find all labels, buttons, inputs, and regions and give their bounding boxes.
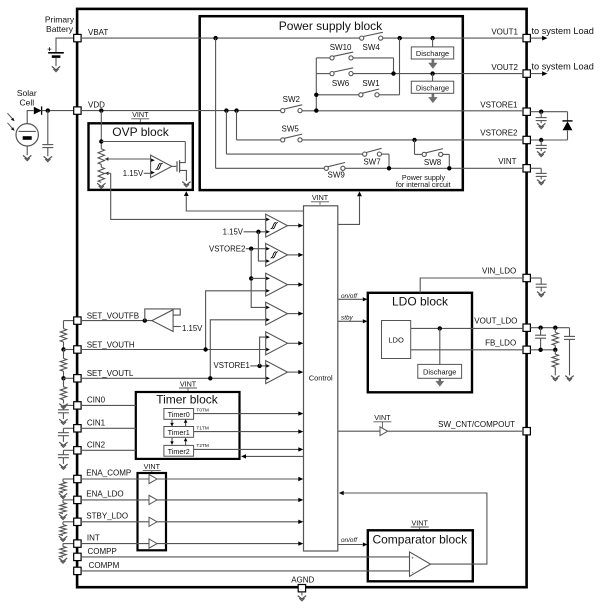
wire control to LDO onoff	[338, 297, 368, 301]
svg-text:CIN0: CIN0	[87, 396, 106, 405]
resistor pulldown at ENA_COMP	[59, 479, 74, 499]
node rail-discharge1	[430, 36, 434, 40]
ground below solar cell	[23, 146, 31, 161]
pin VINT	[498, 157, 530, 172]
pin CIN0	[74, 396, 106, 410]
wire v1 vertical	[215, 38, 217, 168]
switch SW8	[422, 149, 443, 168]
switch SW5	[281, 125, 303, 142]
svg-text:SW6: SW6	[332, 79, 350, 88]
tap arrow OVP R1	[105, 157, 151, 160]
wire comparator A1 output	[288, 223, 304, 227]
node OVP branch	[99, 139, 185, 143]
pin CIN2	[74, 440, 106, 454]
node vstore2-sw8	[412, 138, 416, 142]
wire control to PSB VINT	[338, 191, 362, 224]
svg-text:VINT: VINT	[144, 462, 161, 471]
svg-text:INT: INT	[87, 533, 100, 542]
label 1.15V ref	[223, 228, 244, 237]
svg-text:SW8: SW8	[424, 158, 442, 167]
pin SET_VOUTFB	[74, 312, 139, 325]
svg-text:Cell: Cell	[19, 97, 34, 107]
wire control to SW_CNT	[338, 430, 380, 432]
wire T1TM output	[194, 425, 304, 433]
svg-text:VOUT_LDO: VOUT_LDO	[474, 316, 517, 325]
node vdd-ovp	[99, 108, 103, 112]
svg-text:+: +	[47, 45, 52, 54]
capacitor C2 VOUT_LDO	[564, 328, 575, 381]
capacitor C_VSTORE2	[536, 140, 547, 157]
wire VSTORE1 ext	[530, 110, 567, 114]
svg-text:VBAT: VBAT	[88, 28, 108, 37]
node divider SET_VOUTL	[61, 371, 74, 380]
pin VOUT2	[491, 63, 530, 77]
pin SET_VOUTL	[74, 369, 134, 382]
box Timer1	[164, 427, 194, 438]
svg-text:VDD: VDD	[88, 100, 105, 109]
svg-text:VIN_LDO: VIN_LDO	[482, 267, 516, 276]
switch SW2	[281, 95, 303, 113]
svg-text:CIN2: CIN2	[87, 440, 106, 449]
wire COMPP line	[81, 556, 410, 558]
wire SET_VOUTH to A5 minus	[81, 347, 266, 351]
wire COMPM line	[81, 570, 410, 572]
pin SET_VOUTH	[74, 340, 135, 353]
svg-text:Discharge: Discharge	[423, 367, 456, 376]
wire FB buffer feedback loop	[145, 309, 180, 321]
label VINT above control	[311, 193, 329, 204]
svg-text:to system Load: to system Load	[532, 26, 594, 36]
svg-text:SW2: SW2	[283, 95, 301, 104]
svg-text:OVP block: OVP block	[112, 125, 169, 139]
node divider SET_VOUTH	[61, 342, 74, 352]
pin STBY_LDO	[74, 512, 128, 526]
wire SET_VOUTH bus to A3 minus	[206, 291, 266, 350]
node solar cap junction	[46, 108, 50, 112]
wire 1.15V to A2 minus	[258, 232, 265, 261]
svg-text:1.15V: 1.15V	[182, 324, 203, 333]
label on/off LDO	[341, 293, 358, 300]
wire SW_CNT to pin	[388, 430, 523, 432]
svg-text:VINT: VINT	[312, 193, 329, 202]
switch SW4	[360, 32, 383, 52]
svg-text:SW4: SW4	[363, 43, 381, 52]
resistor divider R mid	[60, 350, 66, 372]
svg-text:VINT: VINT	[412, 518, 429, 527]
discharge box 2 (VOUT2)	[411, 74, 453, 94]
svg-text:SW9: SW9	[328, 171, 346, 180]
label 1.15V FB	[173, 324, 203, 333]
box Timer2	[164, 445, 194, 456]
wire SET_VOUTFB to divider	[64, 320, 74, 322]
wire LDO discharge drop	[439, 328, 441, 364]
title Power supply block	[279, 19, 383, 33]
pin FB_LDO	[485, 339, 530, 354]
capacitor C_CIN0	[58, 405, 74, 424]
resistor divider R bottom	[60, 378, 66, 400]
capacitor C_CIN1	[58, 428, 74, 447]
svg-text:T1TM: T1TM	[196, 425, 209, 431]
wire ENA_COMP to control	[81, 477, 303, 481]
svg-text:COMPM: COMPM	[89, 561, 120, 570]
ground OVP divider	[97, 183, 105, 188]
wire SW8 leads	[415, 140, 450, 168]
wire control to OVP enable (Line B)	[184, 191, 304, 211]
op-amp comparator A3	[266, 273, 288, 296]
switch SW9	[324, 163, 345, 180]
wire v2 vertical	[315, 58, 317, 111]
svg-text:STBY_LDO: STBY_LDO	[86, 512, 128, 521]
resistor OVP R1	[98, 149, 104, 165]
wire VSTORE1 to A5 plus	[260, 337, 266, 366]
svg-text:for internal circuit: for internal circuit	[396, 180, 451, 189]
wire SET_VOUTL bus to A4 minus	[210, 320, 265, 379]
pin SW_CNT/COMPOUT	[438, 420, 530, 435]
svg-text:SW7: SW7	[363, 158, 381, 167]
pin VSTORE1	[480, 100, 530, 115]
discharge arrow LDO	[435, 378, 444, 386]
label VINT above timer	[179, 379, 197, 391]
node vint-sw7	[387, 166, 391, 170]
svg-text:SET_VOUTL: SET_VOUTL	[87, 369, 134, 378]
wire VINT row	[216, 167, 523, 169]
resistor divider R top	[60, 321, 66, 342]
svg-text:AGND: AGND	[291, 576, 314, 585]
discharge box LDO	[418, 364, 462, 378]
op-amp OVP comparator	[151, 155, 172, 177]
resistor R_FB top	[552, 328, 558, 350]
discharge arrow 2	[428, 94, 437, 104]
pin VSTORE2	[480, 129, 530, 144]
wire VOUT_LDO ext	[530, 326, 569, 330]
capacitor C_VIN_LDO	[530, 278, 546, 297]
buffer for ENA_COMP	[149, 474, 157, 483]
svg-text:Timer2: Timer2	[168, 447, 190, 456]
svg-text:SET_VOUTH: SET_VOUTH	[87, 340, 135, 349]
svg-text:VSTORE2: VSTORE2	[209, 244, 245, 253]
LDO block outline	[368, 293, 472, 393]
wire VBAT-VOUT1 rail	[81, 37, 523, 39]
wire CIN2 to timer	[81, 449, 136, 451]
wire comparator output feedback	[339, 491, 487, 564]
label Power supply for internal circuit	[396, 173, 451, 189]
wire solar cell to diode	[27, 111, 33, 124]
control block outline	[304, 206, 338, 551]
label VSTORE2 ref	[209, 244, 245, 253]
pin ENA_COMP	[74, 468, 132, 482]
capacitor C_VSTORE1	[536, 112, 547, 129]
svg-text:COMPP: COMPP	[88, 547, 117, 556]
svg-text:CIN1: CIN1	[87, 418, 106, 427]
label Solar Cell	[17, 88, 37, 107]
svg-text:VINT: VINT	[132, 110, 149, 119]
op-amp main comparator	[410, 552, 431, 576]
svg-text:SW1: SW1	[362, 79, 380, 88]
wire SW10 row	[316, 58, 393, 74]
wire control to comparator onoff	[338, 542, 368, 546]
wire CIN1 to timer	[81, 427, 136, 429]
pin VOUT1	[491, 28, 530, 42]
buffer for STBY_LDO	[149, 517, 157, 526]
svg-text:ENA_LDO: ENA_LDO	[86, 490, 123, 499]
svg-text:Battery: Battery	[46, 24, 74, 34]
op-amp FB buffer (left-pointing)	[152, 310, 173, 332]
arrows between Timer1 and Timer2	[170, 438, 187, 445]
op-amp comparator A5	[266, 332, 288, 355]
battery B1 (primary battery)	[47, 45, 63, 57]
wire VSTORE2 row	[237, 111, 524, 140]
ground below divider	[59, 400, 67, 409]
svg-text:VINT: VINT	[374, 413, 391, 422]
capacitor C_VDD (solar)	[42, 111, 53, 162]
light arrows into solar cell	[8, 113, 15, 131]
wire ENA_LDO to control	[81, 498, 303, 502]
svg-text:Timer1: Timer1	[168, 428, 190, 437]
node sw1-v2	[314, 93, 318, 97]
svg-text:VSTORE1: VSTORE1	[480, 100, 518, 109]
svg-text:-: -	[412, 570, 414, 576]
wire LDO VIN	[420, 278, 523, 293]
label Control	[309, 374, 333, 383]
wire SET_VOUTFB line	[81, 318, 152, 322]
svg-text:FB_LDO: FB_LDO	[485, 339, 516, 348]
capacitor C_VINT	[530, 168, 546, 185]
svg-text:SW10: SW10	[330, 43, 352, 52]
pin VBAT	[74, 28, 109, 42]
resistor R_FB bottom	[551, 350, 559, 381]
ground below AGND pin	[298, 592, 306, 601]
wire OVP comp out to gate	[172, 165, 176, 167]
op-amp comparator A2	[266, 243, 288, 266]
svg-text:VOUT2: VOUT2	[491, 63, 518, 72]
wire VSTORE2 bus down	[249, 249, 266, 308]
timer block outline	[136, 392, 240, 459]
svg-text:Comparator block: Comparator block	[372, 532, 468, 546]
pin CIN1	[74, 418, 106, 432]
wire INT to control	[81, 541, 303, 545]
title Comparator block	[372, 532, 468, 546]
switch SW1	[359, 79, 380, 97]
label VINT above comparator block	[411, 518, 429, 529]
op-amp comparator A6	[266, 361, 288, 384]
wire LDO to FB_LDO	[411, 349, 523, 351]
title LDO block	[392, 294, 449, 308]
svg-text:VSTORE1: VSTORE1	[214, 361, 250, 370]
wire OVP tap down (Line A)	[111, 173, 266, 219]
wire control to LDO stby	[338, 319, 368, 323]
label Primary Battery	[45, 15, 75, 34]
pin INT	[74, 533, 100, 547]
diode D2 (VSTORE1-VSTORE2)	[562, 112, 572, 140]
buffer for ENA_LDO	[149, 495, 157, 504]
diode D1 (solar series diode)	[34, 106, 42, 114]
op-amp comparator A4	[266, 302, 288, 325]
buffer for INT	[149, 539, 157, 548]
resistor OVP R2	[98, 164, 104, 182]
svg-text:Discharge: Discharge	[416, 83, 449, 92]
label stby LDO	[341, 315, 354, 322]
wire STBY_LDO to control	[81, 520, 303, 524]
node vdd-sw7	[224, 108, 228, 112]
wire VSTORE2 to A2 plus	[246, 247, 266, 251]
label VSTORE1 ref	[214, 361, 250, 370]
label on/off comparator	[341, 537, 358, 544]
svg-text:ENA_COMP: ENA_COMP	[86, 468, 131, 477]
transistor M1 (OVP NMOS)	[177, 142, 186, 182]
wire comparator A2 output	[288, 253, 304, 257]
box LDO regulator	[382, 321, 411, 359]
svg-text:LDO block: LDO block	[392, 294, 449, 308]
switch SW10	[330, 43, 353, 60]
wire comparator A6 output	[288, 370, 304, 374]
wire VSTORE2 ext	[530, 138, 567, 142]
wire OVP sense input	[100, 111, 102, 149]
wire control to timer	[241, 454, 304, 458]
node vout2-discharge2	[430, 71, 434, 75]
svg-text:Power supply block: Power supply block	[279, 19, 383, 33]
label VINT above SW_CNT buffer	[373, 413, 391, 427]
node vout2-swB	[391, 71, 395, 75]
capacitor C1 VOUT_LDO	[535, 328, 546, 350]
power supply block outline	[200, 16, 463, 190]
arrows between Timer0 and Timer1	[170, 419, 187, 426]
title Timer block	[156, 393, 219, 407]
solar cell PV1 (circle source)	[16, 124, 38, 146]
wire VSTORE1 to A6 plus	[250, 364, 265, 368]
wire comparator A5 output	[288, 341, 304, 345]
buffer SW_CNT	[380, 427, 388, 436]
svg-text:SET_VOUTFB: SET_VOUTFB	[87, 312, 139, 321]
wire T0TM output	[194, 407, 304, 415]
label VINT above buffer box	[143, 462, 161, 472]
wire SET_VOUTL to A6 minus	[81, 376, 266, 380]
wire T2TM output	[194, 443, 304, 451]
capacitor C_CIN2	[58, 450, 74, 469]
svg-text:SW5: SW5	[282, 125, 300, 134]
switch SW6	[330, 68, 353, 88]
svg-text:T0TM: T0TM	[196, 407, 209, 413]
wire VSTORE2 bus to A3 plus	[251, 277, 266, 279]
svg-text:VSTORE2: VSTORE2	[480, 129, 518, 138]
box Timer0	[164, 409, 194, 420]
op-amp comparator A1	[266, 214, 288, 237]
svg-text:SW_CNT/COMPOUT: SW_CNT/COMPOUT	[438, 420, 515, 429]
svg-text:1.15V: 1.15V	[123, 169, 144, 178]
ground OVP mosfet	[182, 182, 190, 187]
tap arrow OVP R2	[105, 172, 111, 175]
wire VOUT2 row	[316, 73, 523, 75]
resistor pulldown at ENA_LDO	[59, 500, 74, 520]
pin VIN_LDO	[482, 267, 530, 282]
node vint-sw8	[447, 166, 451, 170]
label to system Load (VOUT1)	[530, 26, 593, 40]
pin AGND	[291, 576, 314, 592]
svg-text:LDO: LDO	[388, 336, 404, 345]
label VINT above OVP	[131, 110, 149, 122]
node vdd-sw5	[234, 108, 238, 112]
node rail-v3	[398, 36, 402, 40]
discharge arrow 1	[428, 59, 437, 69]
chip outline (IC boundary)	[77, 9, 526, 587]
pin VOUT_LDO	[474, 316, 530, 331]
svg-text:VINT: VINT	[498, 157, 516, 166]
pin COMPM	[74, 561, 120, 574]
OVP block outline	[89, 123, 193, 190]
svg-text:VINT: VINT	[180, 379, 197, 388]
pin ENA_LDO	[74, 490, 124, 504]
wire VDD-VSTORE1 rail	[81, 110, 523, 112]
pin VDD	[74, 100, 105, 114]
wire 1.15V to A1 minus	[244, 230, 266, 234]
wire FB_LDO ext	[530, 348, 557, 352]
resistor pulldown at INT	[59, 544, 74, 564]
svg-text:stby: stby	[341, 315, 354, 322]
wire SW1 row	[316, 38, 399, 95]
svg-text:T2TM: T2TM	[196, 443, 209, 449]
comparator block outline	[368, 530, 473, 581]
node rail-v1	[213, 36, 217, 40]
svg-text:+: +	[411, 556, 414, 561]
wire comparator A3 output	[288, 282, 304, 286]
svg-text:Timer0: Timer0	[168, 410, 190, 419]
svg-text:1.15V: 1.15V	[223, 228, 244, 237]
wire CIN0 to timer	[81, 404, 136, 406]
svg-text:Timer block: Timer block	[156, 393, 219, 407]
label 1.15V OVP	[123, 169, 151, 178]
svg-text:Control: Control	[309, 374, 333, 383]
svg-text:Discharge: Discharge	[416, 49, 449, 58]
label to system Load (VOUT2)	[530, 62, 593, 76]
svg-text:VOUT1: VOUT1	[491, 28, 518, 37]
wire SW7 row	[226, 111, 389, 169]
discharge box 1 (VOUT1)	[411, 38, 453, 59]
svg-text:to system Load: to system Load	[532, 62, 594, 72]
wire LDO to VOUT_LDO	[411, 326, 523, 330]
resistor pulldown at STBY_LDO	[59, 522, 74, 542]
node vdd-v2	[314, 108, 318, 112]
wire VBAT pin to battery	[56, 38, 74, 52]
ground below battery	[52, 58, 60, 72]
switch SW7	[363, 148, 382, 166]
wire diode to VDD pin	[42, 110, 74, 112]
buffer box outline	[138, 473, 167, 550]
title OVP block	[112, 125, 169, 139]
pin COMPP	[74, 547, 117, 560]
svg-text:on/off: on/off	[341, 537, 358, 544]
wire comparator A4 output	[288, 311, 304, 315]
